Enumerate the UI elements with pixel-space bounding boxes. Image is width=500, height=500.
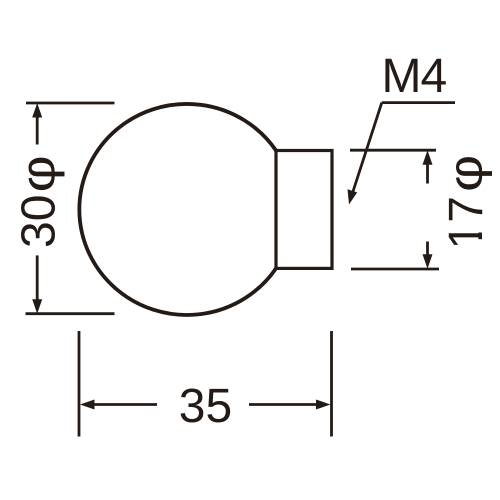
- mask foot serif of 1 (target font has no foot): [478, 223, 487, 233]
- svg-text:φ: φ: [439, 155, 492, 192]
- knob neck rectangle (17φ cylinder): [276, 151, 332, 269]
- svg-text:φ: φ: [12, 155, 65, 192]
- dimension line 30φ lower segment with down arrow: [32, 255, 42, 313]
- M4 underline: [382, 101, 455, 104]
- dimension line 35 right segment with right arrow: [249, 400, 331, 410]
- extension line top-left (ball top): [26, 102, 115, 105]
- extension line bottom left vertical (ball left for 35): [78, 331, 81, 437]
- extension line right upper (neck top): [350, 149, 436, 152]
- knob ball outline (30φ sphere): [79, 104, 276, 315]
- svg-text:35: 35: [179, 380, 232, 433]
- extension line bottom-left (ball bottom): [26, 312, 115, 315]
- dimension arrow 17φ down stub: [423, 242, 433, 269]
- dimension arrow 17φ up stub: [423, 150, 433, 183]
- svg-text:M4: M4: [382, 50, 447, 103]
- extension line right lower (neck bottom): [351, 268, 439, 271]
- dimension line 35 left segment with left arrow: [80, 400, 157, 410]
- dimension line 30φ upper segment with up arrow: [32, 103, 42, 145]
- M4 leader line with arrow: [348, 103, 382, 205]
- extension line bottom right vertical (neck right for 35): [330, 331, 333, 437]
- svg-text:30: 30: [13, 195, 66, 248]
